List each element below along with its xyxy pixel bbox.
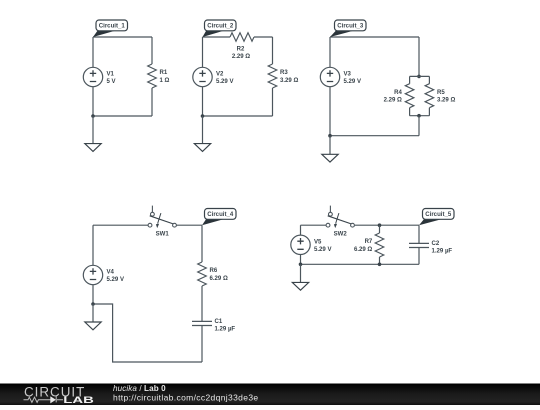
wire V5 top lead bbox=[300, 225, 302, 235]
wire R2 to R3 bbox=[254, 36, 273, 38]
ground bbox=[292, 282, 308, 290]
junction R7 top bbox=[378, 223, 382, 227]
svg-text:5.29 V: 5.29 V bbox=[314, 247, 331, 253]
resistor R3 bbox=[268, 64, 277, 88]
wire C2 top lead bbox=[418, 225, 420, 243]
wire V2 bottom lead bbox=[202, 87, 204, 116]
svg-text:V5: V5 bbox=[314, 239, 322, 245]
svg-text:3.29 Ω: 3.29 Ω bbox=[280, 78, 298, 84]
svg-text:1.29 µF: 1.29 µF bbox=[432, 249, 453, 255]
svg-text:5.29 V: 5.29 V bbox=[107, 277, 124, 283]
wire R1 top lead bbox=[151, 37, 153, 64]
resistor R7 bbox=[375, 233, 384, 257]
wire bottom net (circuit 1) bbox=[93, 115, 152, 117]
junction parallel top bbox=[417, 75, 421, 79]
wire top-left net (circuit 2) bbox=[203, 36, 231, 38]
svg-text:1.29 µF: 1.29 µF bbox=[215, 327, 236, 333]
wire return net (circuit 4) bbox=[93, 304, 202, 362]
wire to ground bbox=[202, 116, 204, 144]
wire R6 top lead bbox=[201, 225, 203, 262]
wire V3 bottom lead bbox=[329, 87, 331, 136]
svg-text:R3: R3 bbox=[280, 70, 288, 76]
resistor R2 bbox=[230, 33, 254, 42]
wire V1 bottom lead bbox=[92, 87, 94, 116]
svg-text:R6: R6 bbox=[210, 268, 218, 274]
node label callout Circuit_3 bbox=[330, 20, 366, 37]
wire bottom net (circuit 5) bbox=[301, 263, 420, 265]
svg-text:V4: V4 bbox=[107, 270, 115, 276]
wire V5 bottom lead bbox=[300, 255, 302, 265]
junction parallel bottom bbox=[417, 114, 421, 118]
footer bar bbox=[0, 384, 540, 406]
node label callout Circuit_4 bbox=[202, 209, 236, 226]
ground bbox=[85, 144, 101, 152]
voltage source V2 bbox=[193, 67, 212, 86]
voltage source V4 bbox=[83, 265, 102, 284]
junction circuit 3 ground node bbox=[328, 134, 332, 138]
wire R6 to C1 bbox=[201, 286, 203, 321]
junction circuit 1 ground node bbox=[91, 114, 95, 118]
wire to parallel pair bbox=[418, 37, 420, 76]
svg-text:2.29 Ω: 2.29 Ω bbox=[232, 54, 250, 60]
wire parallel bottom bar bbox=[410, 115, 430, 117]
resistor R6 bbox=[198, 262, 207, 286]
svg-text:Circuit_1: Circuit_1 bbox=[99, 24, 126, 30]
wire R3 bottom lead bbox=[272, 88, 274, 116]
svg-text:1 Ω: 1 Ω bbox=[160, 78, 170, 84]
resistor R1 bbox=[148, 64, 157, 88]
svg-text:5.29 V: 5.29 V bbox=[344, 79, 361, 85]
wire top net (circuit 1) bbox=[93, 36, 152, 38]
svg-text:SW1: SW1 bbox=[156, 232, 170, 238]
svg-text:3.29 Ω: 3.29 Ω bbox=[437, 98, 455, 104]
node label callout Circuit_2 bbox=[203, 20, 237, 37]
svg-text:Circuit_2: Circuit_2 bbox=[207, 24, 234, 30]
svg-text:C1: C1 bbox=[215, 319, 223, 325]
wire V3 top lead bbox=[329, 37, 331, 67]
svg-text:5.29 V: 5.29 V bbox=[216, 79, 233, 85]
capacitor C2 bbox=[409, 243, 429, 247]
svg-text:Circuit_5: Circuit_5 bbox=[425, 212, 452, 218]
resistor R5 bbox=[425, 84, 434, 108]
wire parallel top bar bbox=[410, 75, 430, 77]
wire V5 to SW2 bbox=[301, 224, 327, 226]
svg-text:R7: R7 bbox=[365, 239, 373, 245]
wire to ground bbox=[92, 116, 94, 144]
svg-text:R1: R1 bbox=[160, 70, 168, 76]
svg-text:6.29 Ω: 6.29 Ω bbox=[210, 276, 228, 282]
svg-text:2.29 Ω: 2.29 Ω bbox=[384, 98, 402, 104]
svg-text:http://circuitlab.com/cc2dqnj3: http://circuitlab.com/cc2dqnj33de3e bbox=[113, 392, 259, 402]
wire down from parallel pair bbox=[418, 116, 420, 136]
svg-text:Circuit_3: Circuit_3 bbox=[337, 24, 364, 30]
wire C2 bottom lead bbox=[418, 248, 420, 265]
junction circuit 4 ground node bbox=[91, 302, 95, 306]
voltage source V3 bbox=[320, 67, 339, 86]
svg-text:R2: R2 bbox=[237, 46, 245, 52]
wire R7 bottom lead bbox=[379, 257, 381, 264]
junction R7 bottom bbox=[378, 263, 382, 267]
svg-text:SW2: SW2 bbox=[334, 232, 348, 238]
node label callout Circuit_5 bbox=[419, 209, 454, 226]
wire to ground bbox=[300, 264, 302, 282]
CircuitLab logo diode triangle bbox=[50, 396, 56, 403]
svg-text:V1: V1 bbox=[107, 72, 115, 78]
svg-text:R5: R5 bbox=[437, 90, 445, 96]
svg-text:Circuit_4: Circuit_4 bbox=[207, 212, 234, 218]
voltage source V1 bbox=[83, 67, 102, 86]
capacitor C1 bbox=[192, 321, 212, 325]
svg-text:LAB: LAB bbox=[63, 395, 94, 405]
wire SW2 to R7/C2 net bbox=[355, 224, 419, 226]
svg-text:C2: C2 bbox=[432, 241, 440, 247]
ground bbox=[85, 322, 101, 330]
svg-text:R4: R4 bbox=[394, 90, 402, 96]
svg-text:V3: V3 bbox=[344, 72, 352, 78]
wire SW1 to R6 net bbox=[177, 224, 202, 226]
wire V4 top lead bbox=[92, 225, 94, 265]
wire bottom net (circuit 2) bbox=[203, 115, 273, 117]
wire branch top leads bbox=[410, 76, 430, 83]
wire to ground bbox=[92, 304, 94, 322]
wire R7 top lead bbox=[379, 225, 381, 233]
ground bbox=[194, 144, 210, 152]
svg-text:6.29 Ω: 6.29 Ω bbox=[354, 247, 372, 253]
switch SW2 bbox=[326, 206, 354, 229]
node label callout Circuit_1 bbox=[93, 20, 128, 37]
wire C1 bottom lead bbox=[201, 326, 203, 363]
voltage source V5 bbox=[291, 235, 310, 254]
wire V4 bottom lead bbox=[92, 285, 94, 304]
ground bbox=[322, 154, 338, 162]
wire R3 top lead bbox=[272, 37, 274, 64]
junction circuit 2 ground node bbox=[201, 114, 205, 118]
wire top net (circuit 3) bbox=[330, 36, 419, 38]
svg-text:5 V: 5 V bbox=[107, 79, 116, 85]
wire V1 top lead bbox=[92, 37, 94, 67]
wire V2 top lead bbox=[202, 37, 204, 67]
resistor R4 bbox=[405, 84, 414, 108]
switch SW1 bbox=[148, 206, 176, 229]
wire bottom net (circuit 3) bbox=[330, 135, 419, 137]
wire V4 to SW1 bbox=[93, 224, 148, 226]
wire branch bottom leads bbox=[410, 108, 430, 116]
junction circuit 5 ground node bbox=[299, 263, 303, 267]
wire R1 bottom lead bbox=[151, 88, 153, 116]
CircuitLab logo resistor line bbox=[24, 396, 64, 403]
wire to ground bbox=[329, 136, 331, 155]
svg-text:V2: V2 bbox=[216, 72, 224, 78]
